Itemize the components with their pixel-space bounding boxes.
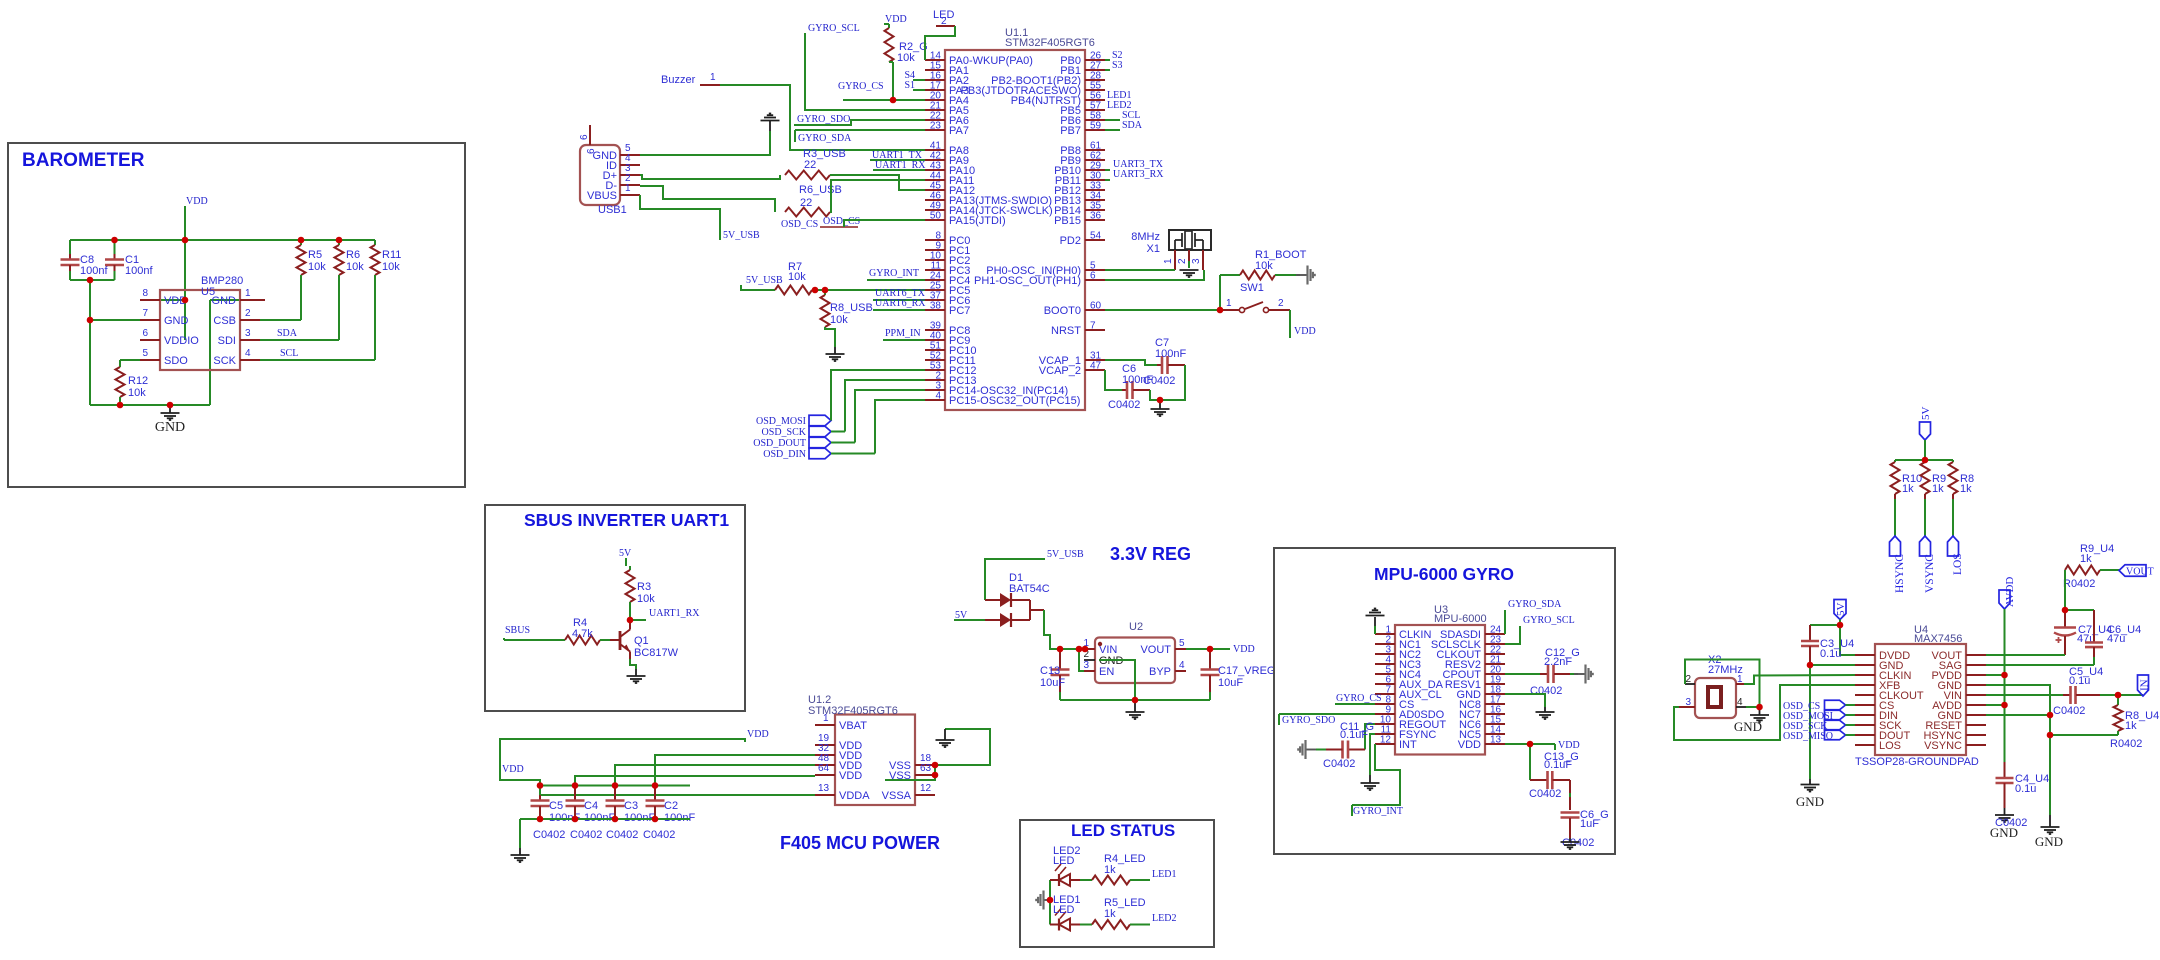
- svg-text:VDD: VDD: [186, 196, 208, 207]
- U3 pin 3 NC2: [1375, 653, 1395, 655]
- wire GND715 row: [1986, 714, 2050, 716]
- svg-text:5V_USB: 5V_USB: [723, 230, 760, 241]
- LED1 arrows: [1055, 909, 1061, 916]
- svg-text:47u: 47u: [2107, 633, 2125, 645]
- svg-text:F405 MCU POWER: F405 MCU POWER: [780, 833, 940, 853]
- capacitor C11_G 0.1uF: [1348, 749, 1365, 751]
- U3 pin 21 RESV2: [1485, 663, 1505, 665]
- svg-text:GYRO_INT: GYRO_INT: [1353, 806, 1403, 817]
- svg-text:10k: 10k: [128, 387, 146, 399]
- U1.2 pin 64 VDD: [815, 774, 835, 776]
- U1.1 pin 50 PA15(JTDI): [925, 219, 945, 221]
- svg-text:1k: 1k: [1104, 908, 1116, 920]
- wire top bus: [70, 239, 375, 241]
- U1.1 pin 21 PA5: [925, 109, 945, 111]
- U1.1 pin 25 PC5: [925, 289, 945, 291]
- wire LED to PA0: [925, 26, 955, 60]
- U4 pin HSYNC (right): [1966, 734, 1986, 736]
- wire R9_U4 left down: [2064, 570, 2066, 610]
- svg-text:1: 1: [245, 288, 251, 299]
- svg-text:GYRO_SCL: GYRO_SCL: [1523, 615, 1575, 626]
- global label 5V (U4): [1834, 600, 1846, 620]
- svg-text:GND: GND: [2035, 834, 2063, 849]
- svg-text:INT: INT: [1399, 739, 1417, 751]
- svg-text:LED1: LED1: [1152, 869, 1176, 880]
- U1.1 pin 36 PB15: [1085, 219, 1105, 221]
- svg-text:PA7: PA7: [949, 125, 969, 137]
- U4 pin CLKOUT (left): [1855, 694, 1875, 696]
- svg-text:GND: GND: [1796, 794, 1824, 809]
- U1.1 pin 37 PC6: [925, 299, 945, 301]
- svg-text:60: 60: [1090, 301, 1102, 312]
- global label LOS: [1948, 536, 1959, 556]
- U4 pin RESET (right): [1966, 724, 1986, 726]
- U1.1 pin 27 PB1: [1085, 69, 1105, 71]
- U1.1 pin 20 PA4: [925, 99, 945, 101]
- global label VSYNC: [1920, 536, 1931, 556]
- global label 5V (pullups): [1920, 422, 1931, 440]
- svg-text:47: 47: [1090, 361, 1102, 372]
- U1.1 pin 11 PC3: [925, 269, 945, 271]
- U1.1 pin 9 PC1: [925, 249, 945, 251]
- pin 6 VDDIO: [140, 339, 160, 341]
- svg-text:SBUS: SBUS: [505, 625, 530, 636]
- U3 pin 20 CPOUT: [1485, 673, 1505, 675]
- capacitor C3 100nF: [614, 786, 616, 801]
- svg-text:10k: 10k: [308, 261, 326, 273]
- svg-text:5: 5: [1179, 638, 1185, 649]
- capacitor C13_G 0.1uF: [1530, 779, 1548, 781]
- IC U5 BMP280: [160, 290, 240, 370]
- svg-text:7: 7: [1090, 321, 1096, 332]
- U3 pin 9 AD0SDO: [1375, 713, 1395, 715]
- svg-text:10uF: 10uF: [1040, 677, 1065, 689]
- svg-text:10k: 10k: [637, 593, 655, 605]
- svg-text:SDA: SDA: [277, 328, 298, 339]
- svg-text:GND: GND: [212, 295, 237, 307]
- transistor Q1 BC817W: [610, 639, 620, 641]
- svg-text:PD2: PD2: [1060, 235, 1081, 247]
- svg-text:10k: 10k: [1255, 260, 1273, 272]
- wire UART6_TX: [873, 299, 925, 301]
- wire GYRO_SDA to PA7: [795, 129, 925, 131]
- svg-text:OSD_DOUT: OSD_DOUT: [753, 438, 806, 449]
- pin 2 CSB: [240, 319, 260, 321]
- U1.1 pin 2 PC13: [925, 379, 945, 381]
- svg-text:MPU-6000: MPU-6000: [1434, 613, 1487, 625]
- resistor R6 10k: [338, 240, 340, 245]
- svg-text:6: 6: [579, 134, 590, 140]
- svg-text:1: 1: [710, 72, 716, 83]
- svg-text:Q1: Q1: [634, 635, 649, 647]
- wire GYRO_SDO to pin9: [1279, 713, 1375, 715]
- svg-text:BAT54C: BAT54C: [1009, 583, 1050, 595]
- svg-text:100nF: 100nF: [1155, 348, 1186, 360]
- svg-text:S3: S3: [1112, 60, 1123, 71]
- svg-text:100nf: 100nf: [80, 265, 108, 277]
- U1.1 pin 24 PC4: [925, 279, 945, 281]
- wire SAG row: [1986, 664, 2094, 666]
- svg-text:SDO: SDO: [164, 355, 188, 367]
- wire VCAP_2 to C6: [1105, 370, 1122, 390]
- svg-text:VDD: VDD: [1294, 326, 1316, 337]
- svg-text:TSSOP28-GROUNDPAD: TSSOP28-GROUNDPAD: [1855, 756, 1979, 768]
- X2 pin 4: [1736, 706, 1746, 708]
- U1.1 pin 22 PA6: [925, 119, 945, 121]
- resistor R4_LED 1k: [1092, 876, 1130, 885]
- wire BOOT0 to SW1: [1105, 309, 1220, 311]
- label stub OSD_CS: [820, 226, 858, 228]
- svg-text:VOUT: VOUT: [2126, 567, 2154, 578]
- svg-text:OSD_MOSI: OSD_MOSI: [756, 416, 806, 427]
- U3 pin 8 CS: [1375, 703, 1395, 705]
- U1.1 pin 47 VCAP_2: [1085, 369, 1105, 371]
- svg-text:GYRO_SDA: GYRO_SDA: [1508, 599, 1562, 610]
- svg-text:59: 59: [1090, 121, 1102, 132]
- ground symbol U4 left: [1809, 779, 1811, 785]
- U3 pin 1 CLKIN: [1375, 633, 1395, 635]
- svg-text:54: 54: [1090, 231, 1102, 242]
- wire OSD_MOSI U4: [1846, 714, 1856, 716]
- U1.1 pin 29 PB10: [1085, 169, 1105, 171]
- svg-text:R3: R3: [637, 581, 651, 593]
- ground symbol U3 gnd18: [1544, 707, 1546, 712]
- U2 pin 2 GND: [1084, 659, 1095, 661]
- diode D1 BAT54C lower: [985, 619, 1000, 621]
- ground symbol VSS: [944, 729, 946, 740]
- svg-text:VOUT: VOUT: [1140, 644, 1171, 656]
- U3 pin 13 VDD: [1485, 743, 1505, 745]
- U4 pin GND (left): [1855, 664, 1875, 666]
- U3 pin 14 NC5: [1485, 733, 1505, 735]
- svg-text:3: 3: [245, 328, 251, 339]
- wire caps top bus: [540, 785, 690, 787]
- ground symbol VCAP: [1159, 400, 1161, 409]
- resistor R8 1k: [1952, 460, 1954, 462]
- wire U2 GND down: [1099, 660, 1135, 700]
- U1.1 pin 60 BOOT0: [1085, 309, 1105, 311]
- global label IN: [2138, 675, 2149, 696]
- svg-text:STM32F405RGT6: STM32F405RGT6: [808, 705, 898, 717]
- wire VOUT row: [1986, 654, 2065, 656]
- wire bottom bus to gnd: [519, 819, 521, 848]
- capacitor C17_VREG 10uF: [1209, 649, 1211, 669]
- svg-text:22: 22: [804, 159, 816, 171]
- svg-text:SDA: SDA: [1122, 120, 1143, 131]
- capacitor C2 100nF: [654, 786, 656, 801]
- svg-text:1k: 1k: [2080, 553, 2092, 565]
- svg-text:5V: 5V: [1920, 407, 1932, 421]
- wire UART1_RX: [873, 169, 925, 171]
- wire VIN row: [1986, 694, 2063, 696]
- wire X2 pin1 to CLKIN: [1744, 675, 1855, 684]
- wire OSD_DOUT tip: [831, 442, 855, 444]
- svg-text:U2: U2: [1129, 621, 1143, 633]
- svg-text:EN: EN: [1099, 666, 1114, 678]
- junction dots overlay: [111, 237, 118, 244]
- svg-text:R6: R6: [346, 249, 360, 261]
- U4 pin SCK (left): [1855, 724, 1875, 726]
- wire U4 GND row: [1810, 664, 1855, 666]
- capacitor C3_U4 0.1u: [1809, 625, 1811, 640]
- svg-text:VSSA: VSSA: [882, 790, 912, 802]
- U4 pin GND (right): [1966, 684, 1986, 686]
- ground symbol U2: [1134, 700, 1136, 712]
- svg-text:2: 2: [1177, 258, 1188, 264]
- svg-text:C0402: C0402: [570, 829, 602, 841]
- U1.1 pin 43 PA10: [925, 169, 945, 171]
- pin 7 GND: [140, 319, 160, 321]
- svg-text:GYRO_SDO: GYRO_SDO: [797, 114, 850, 125]
- svg-text:VDDIO: VDDIO: [164, 335, 199, 347]
- svg-text:23: 23: [930, 121, 942, 132]
- U4 pin AVDD (right): [1966, 704, 1986, 706]
- svg-text:63: 63: [920, 763, 932, 774]
- ground symbol U3 CLKIN (inverted): [1374, 626, 1376, 634]
- resistor R2_G 10k: [884, 23, 889, 25]
- svg-text:R8_USB: R8_USB: [830, 302, 873, 314]
- wire PC15 to OSD_DIN: [875, 400, 925, 448]
- wire C5_U4 to IN flag: [2118, 694, 2143, 696]
- capacitor C4 100nF: [574, 786, 576, 801]
- svg-text:MPU-6000 GYRO: MPU-6000 GYRO: [1374, 564, 1514, 584]
- wire UART3_TX: [1105, 169, 1110, 171]
- svg-text:2: 2: [1685, 674, 1691, 685]
- svg-text:R12: R12: [128, 375, 148, 387]
- U1.1 pin 62 PB9: [1085, 159, 1105, 161]
- resistor R3_USB 22: [785, 171, 830, 180]
- resistor R5 10k: [300, 240, 302, 245]
- USB1 pin 3 D+: [620, 174, 640, 176]
- svg-text:10k: 10k: [346, 261, 364, 273]
- U1.1 pin 53 PC12: [925, 369, 945, 371]
- power arrow LED common: [1043, 899, 1050, 901]
- connector USB1: [580, 145, 620, 205]
- svg-text:64: 64: [818, 763, 830, 774]
- USB1 pin 5 GND: [620, 154, 640, 156]
- svg-text:GYRO_CS: GYRO_CS: [838, 81, 884, 92]
- wire GYRO_CS to PA4: [843, 99, 925, 101]
- ground symbol X2: [1759, 707, 1761, 715]
- svg-text:VDD: VDD: [747, 729, 769, 740]
- svg-text:PC15-OSC32_OUT(PC15): PC15-OSC32_OUT(PC15): [949, 395, 1080, 407]
- U3 pin 7 AUX_CL: [1375, 693, 1395, 695]
- U3 pin 17 NC8: [1485, 703, 1505, 705]
- resistor R8_USB 10k: [824, 290, 826, 295]
- U1.1 pin 4 PC15-OSC32_OUT(PC15): [925, 399, 945, 401]
- U1.1 pin 38 PC7: [925, 309, 945, 311]
- LED2 arrows: [1055, 864, 1061, 871]
- svg-text:VDD: VDD: [839, 770, 862, 782]
- svg-text:BC817W: BC817W: [634, 647, 679, 659]
- svg-text:UART6_RX: UART6_RX: [875, 298, 926, 309]
- svg-text:BYP: BYP: [1149, 666, 1171, 678]
- U3 pin 10 REGOUT: [1375, 723, 1395, 725]
- wire VDD vbat rail: [500, 739, 745, 786]
- svg-text:SBUS INVERTER UART1: SBUS INVERTER UART1: [524, 510, 729, 530]
- svg-text:50: 50: [930, 211, 942, 222]
- capacitor C1: [114, 240, 116, 254]
- svg-text:7: 7: [142, 308, 148, 319]
- U1.1 pin 51 PC10: [925, 349, 945, 351]
- U1.1 pin 52 PC11: [925, 359, 945, 361]
- svg-text:R5: R5: [308, 249, 322, 261]
- U1.1 pin 31 VCAP_1: [1085, 359, 1105, 361]
- wire USB GND: [640, 131, 770, 155]
- capacitor C5_U4 0.1u: [2063, 694, 2070, 696]
- wire GND685 row: [1986, 685, 2050, 815]
- svg-text:C0402: C0402: [1529, 788, 1561, 800]
- wire 5V to C3_U4: [1810, 624, 1840, 626]
- wire R9_U4 to VOUT flag: [2100, 569, 2120, 571]
- wire GYRO_CS to pin8: [1335, 703, 1375, 705]
- svg-text:2: 2: [1278, 298, 1284, 309]
- U1.1 pin 40 PC9: [925, 339, 945, 341]
- capacitor C6_G 1uF: [1561, 811, 1580, 814]
- USB1 pin 6 shield: [589, 125, 591, 145]
- pin 8 VDD: [140, 299, 160, 301]
- svg-text:PC7: PC7: [949, 305, 970, 317]
- wire SBUS to R4: [503, 638, 505, 640]
- resistor R9 1k: [1924, 460, 1926, 462]
- wire UART3_RX: [1105, 179, 1110, 181]
- wire S3: [1105, 69, 1110, 71]
- U1.1 pin 8 PC0: [925, 239, 945, 241]
- wire OSD_CS U4: [1846, 704, 1856, 706]
- svg-text:VDD: VDD: [1458, 739, 1481, 751]
- U1.2 pin 13 VDDA: [815, 794, 835, 796]
- wire bottom rail: [90, 404, 210, 406]
- svg-text:R0402: R0402: [2110, 738, 2142, 750]
- U2 pin 5 VOUT: [1175, 648, 1186, 650]
- svg-text:PB15: PB15: [1054, 215, 1081, 227]
- wire S4: [913, 79, 925, 81]
- wire LED common: [1049, 880, 1051, 925]
- svg-text:10k: 10k: [830, 314, 848, 326]
- wire R5_LED to LED2 label: [1130, 924, 1150, 926]
- U1.1 pin 61 PB8: [1085, 149, 1105, 151]
- wire VSS net: [935, 729, 990, 765]
- LED STATUS section border: [1020, 820, 1214, 947]
- wire VDD pin13: [1505, 743, 1555, 745]
- svg-text:1: 1: [1226, 298, 1232, 309]
- U1.1 pin 46 PA13(JTMS-SWDIO): [925, 199, 945, 201]
- SBUS INVERTER section border: [485, 505, 745, 711]
- wire VSS join: [934, 765, 936, 775]
- svg-text:C0402: C0402: [1108, 399, 1140, 411]
- svg-text:C17_VREG: C17_VREG: [1218, 665, 1275, 677]
- U1.1 pin 34 PB13: [1085, 199, 1105, 201]
- BAROMETER section border: [8, 143, 465, 487]
- svg-text:OSD_CS: OSD_CS: [823, 216, 860, 227]
- wire EN to VIN: [1079, 649, 1084, 671]
- wire PC13 to OSD_SCK: [845, 380, 925, 426]
- wire R8_USB to gnd: [825, 327, 835, 347]
- U1.1 pin 56 PB4(NJTRST): [1085, 99, 1105, 101]
- U3 pin 2 NC1: [1375, 643, 1395, 645]
- U3 pin 24 SDASDI: [1485, 633, 1505, 635]
- svg-text:GND: GND: [155, 420, 185, 435]
- wire R7 to PC5: [812, 289, 925, 291]
- wire LED2 to R4_LED: [1080, 879, 1092, 881]
- wire D1 out to VIN: [1044, 610, 1084, 649]
- U1.1 pin 7 NRST: [1085, 329, 1105, 331]
- svg-text:0.1u: 0.1u: [2069, 675, 2090, 687]
- wire OSD_SCK tip: [831, 431, 845, 433]
- wire X2 top loop: [1685, 660, 1760, 708]
- svg-text:VSYNC: VSYNC: [1924, 740, 1962, 752]
- svg-text:8MHz: 8MHz: [1131, 231, 1160, 243]
- svg-text:GND: GND: [1990, 825, 2018, 840]
- wire UART6_RX: [873, 309, 925, 311]
- U2 pin 3 EN: [1084, 670, 1095, 672]
- X1 pin 3: [1202, 250, 1204, 270]
- pin 3 SDI: [240, 339, 260, 341]
- U1.2 pin 18 VSS: [915, 764, 935, 766]
- wire PPM_IN: [883, 339, 925, 341]
- wire 5V to D1 lower: [954, 619, 985, 621]
- wire PVDD row: [1986, 674, 2005, 676]
- svg-text:4.7k: 4.7k: [572, 628, 593, 640]
- wire OSD_MISO U4: [1846, 734, 1856, 736]
- USB1 pin 1 VBUS: [620, 194, 640, 196]
- wire INT to GYRO_INT: [1352, 744, 1400, 805]
- U3 pin 12 INT: [1375, 743, 1395, 745]
- svg-text:1: 1: [823, 713, 829, 724]
- svg-text:GYRO_SDA: GYRO_SDA: [798, 133, 852, 144]
- wire VDDA from C5: [540, 786, 815, 796]
- svg-text:PA15(JTDI): PA15(JTDI): [949, 215, 1006, 227]
- svg-text:1k: 1k: [2125, 720, 2137, 732]
- svg-text:5V: 5V: [619, 548, 632, 559]
- svg-text:BAROMETER: BAROMETER: [22, 150, 145, 171]
- svg-text:X1: X1: [1147, 243, 1160, 255]
- svg-text:5: 5: [142, 348, 148, 359]
- wire C13_G to C6_G: [1569, 780, 1571, 793]
- wire R1_BOOT branch: [1219, 275, 1221, 310]
- svg-text:4: 4: [935, 391, 941, 402]
- svg-text:GYRO_INT: GYRO_INT: [869, 268, 919, 279]
- U1.1 pin 14 PA0-WKUP(PA0): [925, 59, 945, 61]
- svg-text:PB7: PB7: [1060, 125, 1081, 137]
- wire CSB to R5: [260, 319, 301, 321]
- svg-text:6: 6: [1090, 271, 1096, 282]
- wire R3 to collector: [629, 602, 631, 620]
- wire UART1_RX stub: [630, 619, 646, 621]
- U1.1 pin 28 PB2-BOOT1(PB2): [1085, 79, 1105, 81]
- svg-text:GYRO_SDO: GYRO_SDO: [1282, 715, 1335, 726]
- wire S2: [1105, 59, 1110, 61]
- wire 5V_USB tick: [741, 285, 775, 290]
- svg-text:VDD: VDD: [1558, 740, 1580, 751]
- svg-text:1k: 1k: [1104, 864, 1116, 876]
- IC U1.1 STM32F405RGT6: [945, 50, 1085, 410]
- X2 pin 3: [1679, 706, 1695, 708]
- svg-text:VSYNC: VSYNC: [1924, 554, 1936, 593]
- wire OSD_CS to PA15: [844, 220, 925, 227]
- svg-text:10k: 10k: [788, 271, 806, 283]
- wire R3_USB to PA12: [830, 175, 925, 190]
- svg-text:USB1: USB1: [598, 204, 627, 216]
- svg-text:SCK: SCK: [213, 355, 236, 367]
- wire VDD to bus: [184, 206, 186, 240]
- svg-text:8: 8: [142, 288, 148, 299]
- svg-text:10k: 10k: [897, 52, 915, 64]
- svg-text:UART1_RX: UART1_RX: [649, 608, 700, 619]
- U3 pin 4 NC3: [1375, 663, 1395, 665]
- wire C7 to gnd rail: [1160, 365, 1185, 400]
- LED LED1 diode: [1050, 924, 1059, 926]
